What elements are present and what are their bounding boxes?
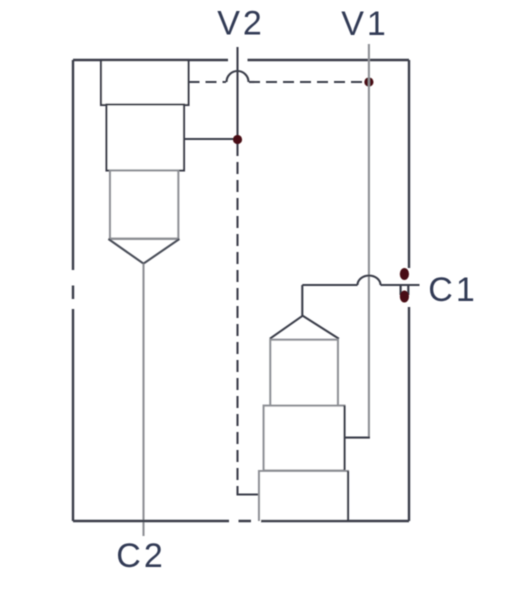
valve CV1 tier 2 right side: [343, 406, 345, 471]
valve CV1 body tier 3: [259, 471, 348, 521]
valve CV1 poppet triangle: [270, 316, 339, 339]
wire pilot dashed right: [249, 81, 366, 83]
valve CV2 body tier 3: [110, 171, 178, 239]
valve CV2 body tier 1: [101, 60, 189, 105]
wire V2 dashed drain: [236, 144, 238, 481]
svg-text:C1: C1: [428, 271, 477, 309]
valve CV1 body tier 1: [270, 340, 338, 406]
svg-text:V1: V1: [341, 5, 389, 43]
svg-text:V2: V2: [217, 5, 265, 43]
crossover bump at V1: [358, 276, 381, 285]
wire V2 stub: [236, 47, 238, 139]
port C1 marker bar upper: [400, 268, 409, 280]
wire V1 to CV1: [345, 437, 370, 439]
valve CV2 poppet triangle: [108, 239, 179, 264]
wire C1: [302, 284, 419, 286]
port C1 marker bar lower: [400, 291, 409, 303]
valve CV2 body tier 2: [107, 105, 185, 171]
node junction V2: [233, 135, 242, 144]
wire C2: [142, 264, 144, 536]
wire CV2 to node V2: [184, 138, 238, 140]
valve CV1 body tier 2: [264, 406, 345, 471]
svg-text:C2: C2: [116, 537, 165, 575]
valve CV2 seat line: [108, 238, 179, 240]
wire V1: [368, 44, 370, 437]
envelope top edge: [73, 59, 409, 61]
wire CV1 stem: [301, 285, 303, 316]
port C1 marker ticks: [401, 286, 409, 296]
envelope left edge: [72, 60, 74, 521]
crossover bump at V2: [227, 71, 249, 82]
wire pilot dashed: [189, 81, 227, 83]
envelope bottom edge: [73, 520, 409, 522]
envelope right edge: [408, 60, 410, 521]
valve CV1 tier 3 right side: [347, 471, 349, 521]
wire V2 drain elbow: [237, 486, 259, 495]
node junction V1: [364, 77, 373, 86]
